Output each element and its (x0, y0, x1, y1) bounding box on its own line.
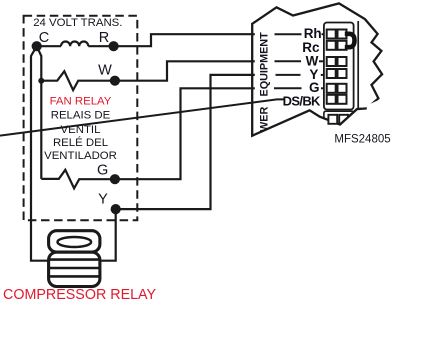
wire C to R with transformer secondary (37, 45, 61, 47)
svg-text:EQUIPMENT: EQUIPMENT (259, 32, 271, 97)
wire C down-right branch to relay coils (37, 46, 42, 179)
terminal block housing (324, 23, 354, 110)
wire Y down to compressor relay (100, 209, 116, 261)
svg-text:COMPRESSOR RELAY: COMPRESSOR RELAY (3, 287, 157, 303)
terminal lead G (274, 87, 302, 89)
jumper Rh-Rc (345, 34, 355, 47)
terminal stub Y (321, 74, 325, 76)
POWER side label (clipped by tear) (259, 107, 271, 148)
tear bottom edge over connector (340, 108, 367, 124)
node Y (111, 204, 121, 214)
node G (110, 174, 120, 184)
fan relay coil (G winding) (41, 170, 115, 189)
svg-text:R: R (99, 30, 109, 46)
terminal screws column (327, 30, 347, 104)
transformer secondary winding L1 (61, 42, 88, 47)
svg-text:FAN RELAY: FAN RELAY (50, 95, 112, 107)
terminal lead W (275, 60, 302, 62)
wire C down-left branch to compressor relay (31, 46, 50, 261)
fan relay coil (W winding) (41, 71, 115, 90)
node W (110, 76, 120, 86)
svg-text:W: W (98, 62, 112, 78)
svg-text:C: C (39, 30, 49, 46)
svg-text:G: G (97, 162, 108, 178)
svg-text:VENTILADOR: VENTILADOR (44, 150, 117, 162)
svg-text:Rh: Rh (304, 26, 322, 41)
svg-text:RELÉ DEL: RELÉ DEL (53, 136, 108, 149)
24 volt transformer dashed enclosure (24, 16, 138, 221)
tear mask (341, 100, 384, 136)
wire R to Rh terminal (88, 34, 255, 46)
second connector (torn) (324, 111, 354, 124)
node R (109, 41, 119, 51)
thermostat torn-edge outline (252, 3, 382, 135)
terminal lead Y (276, 74, 301, 76)
wire Y to Y terminal (116, 75, 255, 209)
wire DS/BK diagonal (0, 99, 284, 135)
terminal lead Rh (275, 33, 302, 35)
node C (32, 41, 42, 51)
terminal stub G (321, 87, 326, 89)
svg-text:Y: Y (98, 192, 108, 208)
terminal stub W (319, 60, 325, 62)
svg-text:DS/BK: DS/BK (283, 94, 321, 109)
svg-text:RELAIS DE: RELAIS DE (51, 109, 111, 121)
junction on C branch (38, 78, 44, 84)
terminal stub Rh (322, 33, 327, 35)
terminal block right plate (357, 21, 359, 109)
svg-text:MFS24805: MFS24805 (334, 133, 390, 145)
wire W to W terminal (115, 61, 255, 80)
wire G to G terminal (115, 88, 255, 179)
compressor relay symbol (49, 231, 100, 287)
svg-text:W: W (306, 53, 319, 68)
svg-text:POWER: POWER (259, 107, 271, 148)
svg-text:24 VOLT TRANS.: 24 VOLT TRANS. (33, 17, 122, 29)
